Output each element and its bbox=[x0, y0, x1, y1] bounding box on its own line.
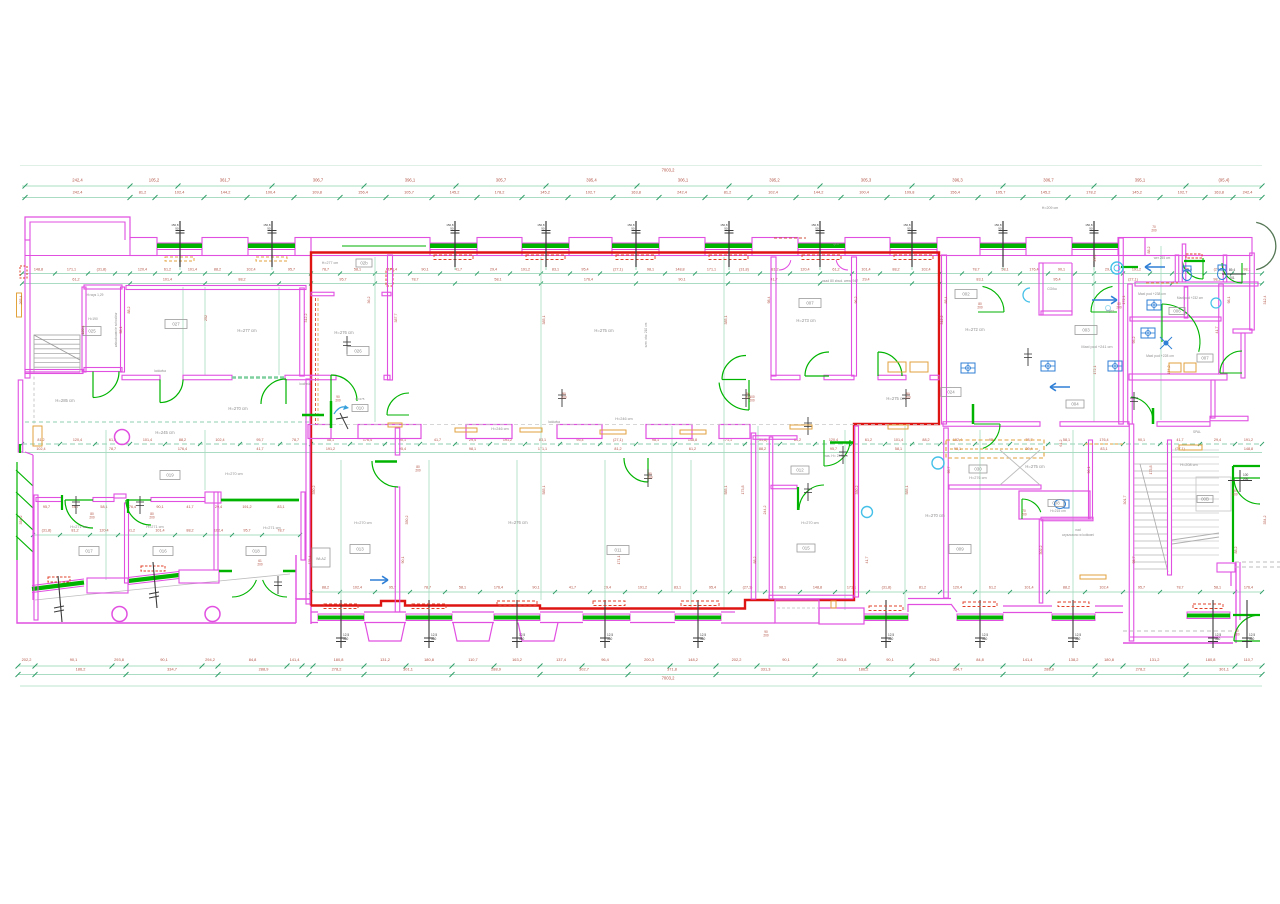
svg-text:Maxl pod +228 cm: Maxl pod +228 cm bbox=[1146, 354, 1174, 358]
svg-text:156,4: 156,4 bbox=[358, 190, 369, 195]
svg-text:360: 360 bbox=[1249, 637, 1255, 641]
svg-text:H=190: H=190 bbox=[88, 317, 98, 321]
svg-text:003: 003 bbox=[1082, 328, 1090, 333]
svg-text:176,4: 176,4 bbox=[308, 556, 312, 565]
svg-text:100,4: 100,4 bbox=[266, 190, 277, 195]
svg-text:nad: nad bbox=[1075, 528, 1081, 532]
svg-text:102,4: 102,4 bbox=[36, 447, 45, 451]
svg-text:109,8: 109,8 bbox=[905, 190, 915, 195]
svg-text:WŁAZ: WŁAZ bbox=[316, 557, 327, 561]
svg-text:58,1: 58,1 bbox=[1063, 438, 1070, 442]
svg-text:200: 200 bbox=[149, 516, 155, 520]
svg-text:61,2: 61,2 bbox=[72, 278, 79, 282]
svg-text:585,1: 585,1 bbox=[905, 486, 909, 495]
svg-text:90,1: 90,1 bbox=[421, 268, 428, 272]
svg-text:95,4: 95,4 bbox=[581, 268, 588, 272]
svg-text:009: 009 bbox=[956, 547, 964, 552]
svg-text:120,4: 120,4 bbox=[99, 529, 108, 533]
svg-text:95,4: 95,4 bbox=[709, 586, 716, 590]
svg-text:102,4: 102,4 bbox=[921, 268, 930, 272]
svg-text:98,1: 98,1 bbox=[647, 268, 654, 272]
svg-text:334,7: 334,7 bbox=[167, 667, 177, 672]
svg-text:145,2: 145,2 bbox=[450, 190, 460, 195]
svg-text:58,1: 58,1 bbox=[354, 268, 361, 272]
svg-text:178,2: 178,2 bbox=[495, 190, 505, 195]
svg-text:29,4: 29,4 bbox=[1214, 438, 1221, 442]
svg-text:395,2: 395,2 bbox=[769, 178, 780, 183]
svg-text:90,1: 90,1 bbox=[160, 657, 168, 662]
svg-text:(31,8): (31,8) bbox=[758, 438, 768, 442]
svg-text:360: 360 bbox=[1075, 637, 1081, 641]
svg-text:90: 90 bbox=[267, 227, 271, 231]
svg-text:242,4: 242,4 bbox=[1243, 190, 1254, 195]
svg-text:96,2: 96,2 bbox=[854, 297, 858, 304]
svg-text:294,2: 294,2 bbox=[930, 657, 940, 662]
svg-text:176,4: 176,4 bbox=[1244, 586, 1253, 590]
svg-text:81,2: 81,2 bbox=[37, 438, 44, 442]
svg-text:027: 027 bbox=[172, 322, 180, 327]
svg-text:H=270 cm: H=270 cm bbox=[925, 513, 945, 518]
svg-text:024: 024 bbox=[947, 390, 955, 395]
svg-text:H=275: H=275 bbox=[356, 397, 365, 401]
svg-text:(27,1): (27,1) bbox=[613, 438, 623, 442]
svg-text:95,2: 95,2 bbox=[1132, 337, 1136, 344]
svg-text:360: 360 bbox=[888, 637, 894, 641]
svg-text:120,4: 120,4 bbox=[81, 326, 85, 335]
svg-text:202,2: 202,2 bbox=[732, 657, 742, 662]
svg-text:206: 206 bbox=[1243, 477, 1249, 481]
svg-text:29,4: 29,4 bbox=[1093, 255, 1097, 262]
svg-text:186,2: 186,2 bbox=[76, 667, 86, 672]
svg-text:tynk: tynk bbox=[833, 242, 839, 246]
svg-text:171,1: 171,1 bbox=[617, 556, 621, 565]
svg-text:191,2: 191,2 bbox=[242, 505, 251, 509]
svg-text:88,2: 88,2 bbox=[922, 438, 929, 442]
svg-text:90: 90 bbox=[815, 227, 819, 231]
svg-text:200: 200 bbox=[1232, 493, 1238, 497]
svg-text:131,2: 131,2 bbox=[380, 657, 390, 662]
svg-text:102,7: 102,7 bbox=[1178, 190, 1188, 195]
svg-text:180,8: 180,8 bbox=[1206, 657, 1216, 662]
svg-text:148,8: 148,8 bbox=[675, 268, 684, 272]
svg-text:200: 200 bbox=[763, 634, 769, 638]
svg-text:200: 200 bbox=[257, 563, 263, 567]
svg-text:200: 200 bbox=[1151, 229, 1157, 233]
svg-text:zabudowanie schodów: zabudowanie schodów bbox=[114, 312, 118, 347]
svg-text:(31,8): (31,8) bbox=[42, 529, 52, 533]
svg-text:172,1: 172,1 bbox=[1122, 296, 1126, 305]
svg-text:H=209 cm: H=209 cm bbox=[1042, 206, 1058, 210]
svg-text:90: 90 bbox=[175, 227, 179, 231]
svg-text:006: 006 bbox=[1173, 309, 1181, 314]
svg-text:312,2: 312,2 bbox=[940, 316, 944, 325]
svg-text:172,1: 172,1 bbox=[1093, 366, 1097, 375]
svg-text:41,7: 41,7 bbox=[455, 268, 462, 272]
svg-text:kuchnia: kuchnia bbox=[300, 382, 311, 386]
svg-text:CO/ku: CO/ku bbox=[1047, 287, 1057, 291]
svg-text:101,4: 101,4 bbox=[894, 438, 903, 442]
svg-text:90,1: 90,1 bbox=[1138, 438, 1145, 442]
svg-text:371,8: 371,8 bbox=[667, 667, 677, 672]
svg-text:90: 90 bbox=[724, 227, 728, 231]
svg-text:bojler: bojler bbox=[1106, 309, 1115, 313]
svg-text:81,2: 81,2 bbox=[771, 268, 778, 272]
svg-text:101,4: 101,4 bbox=[188, 268, 197, 272]
svg-text:191,2: 191,2 bbox=[521, 268, 530, 272]
svg-text:83,1: 83,1 bbox=[674, 586, 681, 590]
svg-text:200: 200 bbox=[415, 469, 421, 473]
svg-text:78,7: 78,7 bbox=[424, 586, 431, 590]
svg-text:025: 025 bbox=[88, 329, 96, 334]
svg-text:41,7: 41,7 bbox=[186, 505, 193, 509]
svg-text:H=270 cm: H=270 cm bbox=[228, 406, 248, 411]
svg-text:H=wys 1,29: H=wys 1,29 bbox=[87, 293, 104, 297]
svg-text:41,7: 41,7 bbox=[434, 438, 441, 442]
svg-text:016: 016 bbox=[159, 549, 167, 554]
svg-text:186,2: 186,2 bbox=[859, 667, 869, 672]
svg-text:288,9: 288,9 bbox=[1044, 667, 1054, 672]
svg-text:110,7: 110,7 bbox=[468, 657, 477, 662]
svg-text:004: 004 bbox=[1071, 402, 1079, 407]
svg-text:110,7: 110,7 bbox=[1244, 657, 1253, 662]
svg-text:305,3: 305,3 bbox=[861, 178, 872, 183]
svg-text:41,7: 41,7 bbox=[1176, 438, 1183, 442]
svg-text:7003,2: 7003,2 bbox=[662, 168, 675, 173]
svg-text:H=271 cm: H=271 cm bbox=[263, 526, 280, 530]
svg-text:148,8: 148,8 bbox=[34, 268, 43, 272]
svg-text:105,7: 105,7 bbox=[996, 190, 1006, 195]
svg-text:145,2: 145,2 bbox=[540, 190, 550, 195]
svg-text:017: 017 bbox=[85, 549, 93, 554]
svg-text:nas. H= 250 cm: nas. H= 250 cm bbox=[824, 454, 848, 458]
svg-text:395,4: 395,4 bbox=[586, 178, 597, 183]
svg-text:278,2: 278,2 bbox=[332, 667, 342, 672]
svg-text:148,8: 148,8 bbox=[1244, 447, 1253, 451]
svg-text:396,3: 396,3 bbox=[952, 178, 963, 183]
svg-text:H=270 cm: H=270 cm bbox=[354, 521, 371, 525]
svg-text:95,7: 95,7 bbox=[288, 268, 295, 272]
svg-text:88,2: 88,2 bbox=[238, 278, 245, 282]
svg-text:301,1: 301,1 bbox=[1219, 667, 1229, 672]
svg-text:141,4: 141,4 bbox=[1023, 657, 1034, 662]
svg-text:Maxl pod +232 cm: Maxl pod +232 cm bbox=[1177, 296, 1203, 300]
svg-text:(31,8): (31,8) bbox=[97, 268, 107, 272]
svg-text:200: 200 bbox=[1116, 306, 1122, 310]
svg-text:013: 013 bbox=[356, 547, 364, 552]
svg-text:02b: 02b bbox=[360, 261, 368, 266]
svg-text:81,2: 81,2 bbox=[919, 586, 926, 590]
svg-text:105,2: 105,2 bbox=[149, 178, 160, 183]
svg-text:(31,8): (31,8) bbox=[882, 586, 892, 590]
svg-text:98,1: 98,1 bbox=[469, 447, 476, 451]
svg-text:95,7: 95,7 bbox=[243, 529, 250, 533]
svg-text:88,4: 88,4 bbox=[944, 297, 948, 304]
svg-text:331,3: 331,3 bbox=[761, 667, 771, 672]
svg-text:200: 200 bbox=[335, 399, 341, 403]
svg-text:201: 201 bbox=[1229, 276, 1235, 280]
svg-text:007: 007 bbox=[806, 301, 814, 306]
svg-text:H=271 cm: H=271 cm bbox=[70, 525, 87, 529]
svg-text:7003,2: 7003,2 bbox=[662, 676, 675, 681]
svg-text:78,7: 78,7 bbox=[972, 268, 979, 272]
svg-text:137,4: 137,4 bbox=[556, 657, 567, 662]
svg-text:145,2: 145,2 bbox=[1132, 190, 1142, 195]
svg-text:120,4: 120,4 bbox=[953, 586, 962, 590]
svg-text:95,7: 95,7 bbox=[947, 467, 951, 474]
svg-text:61,2: 61,2 bbox=[989, 586, 996, 590]
svg-text:41,7: 41,7 bbox=[569, 586, 576, 590]
svg-text:178,2: 178,2 bbox=[1086, 190, 1096, 195]
svg-text:334,7: 334,7 bbox=[953, 667, 963, 672]
svg-text:012: 012 bbox=[796, 468, 804, 473]
svg-text:61,2: 61,2 bbox=[689, 447, 696, 451]
svg-text:SPAL: SPAL bbox=[1193, 430, 1201, 434]
svg-text:95,7: 95,7 bbox=[43, 505, 50, 509]
svg-text:90,1: 90,1 bbox=[1058, 268, 1065, 272]
svg-text:354,2: 354,2 bbox=[1263, 516, 1267, 525]
svg-text:176,4: 176,4 bbox=[178, 447, 187, 451]
svg-text:95,7: 95,7 bbox=[1132, 557, 1136, 564]
svg-text:293,8: 293,8 bbox=[837, 657, 847, 662]
svg-text:58,1: 58,1 bbox=[1214, 586, 1221, 590]
svg-text:350,2: 350,2 bbox=[312, 486, 316, 495]
svg-text:200: 200 bbox=[647, 476, 653, 480]
svg-text:83,1: 83,1 bbox=[552, 268, 559, 272]
svg-text:102,7: 102,7 bbox=[586, 190, 596, 195]
svg-text:81,2: 81,2 bbox=[724, 190, 732, 195]
svg-text:102,4: 102,4 bbox=[215, 438, 224, 442]
svg-text:200: 200 bbox=[977, 306, 983, 310]
svg-text:360: 360 bbox=[519, 637, 525, 641]
svg-text:H=285 cm: H=285 cm bbox=[55, 398, 75, 403]
svg-text:306,1: 306,1 bbox=[678, 178, 689, 183]
svg-text:105,7: 105,7 bbox=[404, 190, 414, 195]
svg-text:305,7: 305,7 bbox=[496, 178, 507, 183]
svg-text:350,2: 350,2 bbox=[855, 486, 859, 495]
svg-text:278,2: 278,2 bbox=[1136, 667, 1146, 672]
svg-text:387,7: 387,7 bbox=[394, 314, 398, 323]
svg-text:78,7: 78,7 bbox=[109, 447, 116, 451]
svg-text:396,1: 396,1 bbox=[405, 178, 416, 183]
svg-text:wer 255 cm: wer 255 cm bbox=[1154, 256, 1171, 260]
svg-text:120,4: 120,4 bbox=[73, 438, 82, 442]
svg-text:360: 360 bbox=[700, 637, 706, 641]
svg-text:78,7: 78,7 bbox=[1176, 586, 1183, 590]
svg-text:385,1: 385,1 bbox=[542, 316, 546, 325]
svg-text:144,2: 144,2 bbox=[814, 190, 824, 195]
svg-text:H=276 cm: H=276 cm bbox=[508, 520, 528, 525]
svg-text:294,2: 294,2 bbox=[205, 657, 215, 662]
svg-text:61,2: 61,2 bbox=[164, 268, 171, 272]
svg-text:58,1: 58,1 bbox=[100, 505, 107, 509]
svg-text:(95,4): (95,4) bbox=[1219, 178, 1231, 183]
svg-text:lodówka: lodówka bbox=[154, 369, 166, 373]
svg-text:88,2: 88,2 bbox=[753, 557, 757, 564]
svg-text:101,4: 101,4 bbox=[163, 278, 172, 282]
svg-text:90,1: 90,1 bbox=[156, 505, 163, 509]
svg-text:szer. otw. 210 cm: szer. otw. 210 cm bbox=[644, 322, 648, 347]
svg-text:145,2: 145,2 bbox=[1041, 190, 1051, 195]
svg-text:(31,8): (31,8) bbox=[739, 268, 749, 272]
svg-text:H=208 cm: H=208 cm bbox=[1180, 463, 1197, 467]
svg-text:58,1: 58,1 bbox=[895, 447, 902, 451]
svg-text:H=275 cm: H=275 cm bbox=[594, 328, 614, 333]
svg-text:102,4: 102,4 bbox=[175, 190, 186, 195]
svg-text:144,2: 144,2 bbox=[221, 190, 231, 195]
svg-text:83,1: 83,1 bbox=[1100, 447, 1107, 451]
svg-text:007: 007 bbox=[1201, 356, 1209, 361]
svg-text:395,1: 395,1 bbox=[1135, 178, 1146, 183]
svg-text:H=271 cm: H=271 cm bbox=[146, 525, 163, 529]
svg-text:242,4: 242,4 bbox=[677, 190, 688, 195]
svg-text:101,4: 101,4 bbox=[143, 438, 152, 442]
svg-text:109,8: 109,8 bbox=[312, 190, 322, 195]
svg-text:312,2: 312,2 bbox=[304, 314, 308, 323]
svg-text:171,1: 171,1 bbox=[67, 268, 76, 272]
svg-text:61,2: 61,2 bbox=[832, 268, 839, 272]
svg-text:010: 010 bbox=[356, 406, 364, 411]
svg-text:78,7: 78,7 bbox=[292, 438, 299, 442]
svg-text:41,7: 41,7 bbox=[1215, 327, 1219, 334]
svg-text:120,4: 120,4 bbox=[138, 268, 147, 272]
svg-text:385,1: 385,1 bbox=[724, 316, 728, 325]
svg-text:011: 011 bbox=[615, 548, 623, 553]
svg-text:138,2: 138,2 bbox=[1069, 657, 1079, 662]
svg-text:58,1: 58,1 bbox=[459, 586, 466, 590]
svg-text:41,7: 41,7 bbox=[256, 447, 263, 451]
svg-text:61,2: 61,2 bbox=[1059, 440, 1063, 447]
svg-text:osad 80 zbud. wew. 947: osad 80 zbud. wew. 947 bbox=[822, 279, 858, 283]
svg-text:88,2: 88,2 bbox=[892, 268, 899, 272]
svg-text:H=272 cm: H=272 cm bbox=[965, 327, 985, 332]
svg-text:H=275 cm: H=275 cm bbox=[886, 396, 906, 401]
svg-text:156,4: 156,4 bbox=[950, 190, 961, 195]
svg-text:200: 200 bbox=[1234, 633, 1240, 637]
svg-text:81,2: 81,2 bbox=[139, 190, 147, 195]
svg-text:84,8: 84,8 bbox=[976, 657, 984, 662]
svg-text:302,7: 302,7 bbox=[579, 667, 589, 672]
svg-text:102,4: 102,4 bbox=[246, 268, 255, 272]
svg-text:360: 360 bbox=[1215, 637, 1221, 641]
svg-text:84,8: 84,8 bbox=[249, 657, 257, 662]
svg-text:585,1: 585,1 bbox=[542, 486, 546, 495]
svg-text:200: 200 bbox=[1021, 513, 1027, 517]
svg-text:171,1: 171,1 bbox=[538, 447, 547, 451]
svg-text:100,4: 100,4 bbox=[859, 190, 870, 195]
svg-text:90: 90 bbox=[631, 227, 635, 231]
svg-text:88,2: 88,2 bbox=[179, 438, 186, 442]
svg-text:244,2: 244,2 bbox=[763, 506, 767, 515]
svg-text:H=275 cm: H=275 cm bbox=[1025, 464, 1045, 469]
svg-text:173,8: 173,8 bbox=[1149, 466, 1153, 475]
svg-text:81,2: 81,2 bbox=[71, 529, 78, 533]
svg-text:00B: 00B bbox=[1201, 497, 1209, 502]
svg-text:58,1: 58,1 bbox=[494, 278, 501, 282]
svg-text:585,1: 585,1 bbox=[724, 486, 728, 495]
svg-text:90,1: 90,1 bbox=[401, 557, 405, 564]
svg-text:95,7: 95,7 bbox=[339, 278, 346, 282]
svg-text:360: 360 bbox=[982, 637, 988, 641]
svg-text:242,4: 242,4 bbox=[73, 190, 84, 195]
svg-text:102,4: 102,4 bbox=[1099, 586, 1108, 590]
svg-text:H=270 cm: H=270 cm bbox=[801, 521, 818, 525]
svg-text:191,2: 191,2 bbox=[1244, 438, 1253, 442]
svg-text:29,4: 29,4 bbox=[490, 268, 497, 272]
svg-text:78,7: 78,7 bbox=[411, 278, 418, 282]
svg-text:83,1: 83,1 bbox=[539, 438, 546, 442]
svg-text:H=245 cm: H=245 cm bbox=[155, 430, 175, 435]
svg-text:95,7: 95,7 bbox=[1138, 586, 1145, 590]
svg-text:312,4: 312,4 bbox=[1263, 296, 1267, 305]
svg-text:95,7: 95,7 bbox=[830, 447, 837, 451]
svg-text:176,4: 176,4 bbox=[1099, 438, 1108, 442]
svg-text:200: 200 bbox=[89, 516, 95, 520]
svg-text:78,7: 78,7 bbox=[322, 268, 329, 272]
svg-text:265,4: 265,4 bbox=[19, 296, 23, 305]
svg-text:141,4: 141,4 bbox=[290, 657, 301, 662]
svg-text:173,8: 173,8 bbox=[741, 486, 745, 495]
svg-text:36,2: 36,2 bbox=[367, 297, 371, 304]
svg-text:90: 90 bbox=[998, 227, 1002, 231]
svg-text:101,4: 101,4 bbox=[861, 268, 870, 272]
svg-text:88,2: 88,2 bbox=[214, 268, 221, 272]
svg-text:200: 200 bbox=[749, 399, 755, 403]
svg-text:95,4: 95,4 bbox=[1053, 278, 1060, 282]
svg-text:88,2: 88,2 bbox=[186, 529, 193, 533]
svg-text:301,1: 301,1 bbox=[403, 667, 413, 672]
svg-text:101,4: 101,4 bbox=[1024, 586, 1033, 590]
svg-text:90,1: 90,1 bbox=[678, 278, 685, 282]
svg-text:90,1: 90,1 bbox=[782, 657, 790, 662]
svg-text:018: 018 bbox=[252, 549, 260, 554]
svg-text:88,2: 88,2 bbox=[322, 586, 329, 590]
svg-text:90,1: 90,1 bbox=[532, 586, 539, 590]
svg-text:Maxl pod +241 cm: Maxl pod +241 cm bbox=[1081, 345, 1112, 349]
svg-text:61,2: 61,2 bbox=[865, 438, 872, 442]
svg-text:90: 90 bbox=[541, 227, 545, 231]
svg-text:101,4: 101,4 bbox=[155, 529, 164, 533]
svg-text:026: 026 bbox=[354, 349, 362, 354]
svg-text:288,9: 288,9 bbox=[491, 667, 501, 672]
svg-text:90: 90 bbox=[450, 227, 454, 231]
svg-text:293,8: 293,8 bbox=[114, 657, 124, 662]
svg-text:019: 019 bbox=[166, 473, 174, 478]
svg-text:163,2: 163,2 bbox=[512, 657, 522, 662]
svg-text:360: 360 bbox=[343, 637, 349, 641]
svg-text:98,4: 98,4 bbox=[767, 297, 771, 304]
svg-text:90,1: 90,1 bbox=[886, 657, 894, 662]
svg-text:102,4: 102,4 bbox=[768, 190, 779, 195]
svg-text:302,2: 302,2 bbox=[1039, 546, 1043, 555]
svg-text:41,7: 41,7 bbox=[865, 557, 869, 564]
svg-text:120,4: 120,4 bbox=[800, 268, 809, 272]
svg-text:176,4: 176,4 bbox=[584, 278, 593, 282]
svg-text:191,2: 191,2 bbox=[326, 447, 335, 451]
svg-text:58,1: 58,1 bbox=[1001, 268, 1008, 272]
svg-text:90,1: 90,1 bbox=[1087, 467, 1091, 474]
svg-text:171,1: 171,1 bbox=[707, 268, 716, 272]
svg-text:(27,1): (27,1) bbox=[1128, 278, 1138, 282]
svg-text:148,2: 148,2 bbox=[688, 657, 698, 662]
svg-text:H=276 cm: H=276 cm bbox=[334, 330, 354, 335]
svg-text:354,2: 354,2 bbox=[19, 516, 23, 525]
svg-text:90: 90 bbox=[907, 227, 911, 231]
svg-text:58,1: 58,1 bbox=[119, 327, 123, 334]
svg-text:H=277 cm: H=277 cm bbox=[237, 328, 257, 333]
svg-text:002: 002 bbox=[962, 292, 970, 297]
svg-text:148,8: 148,8 bbox=[813, 586, 822, 590]
svg-text:191,2: 191,2 bbox=[638, 586, 647, 590]
